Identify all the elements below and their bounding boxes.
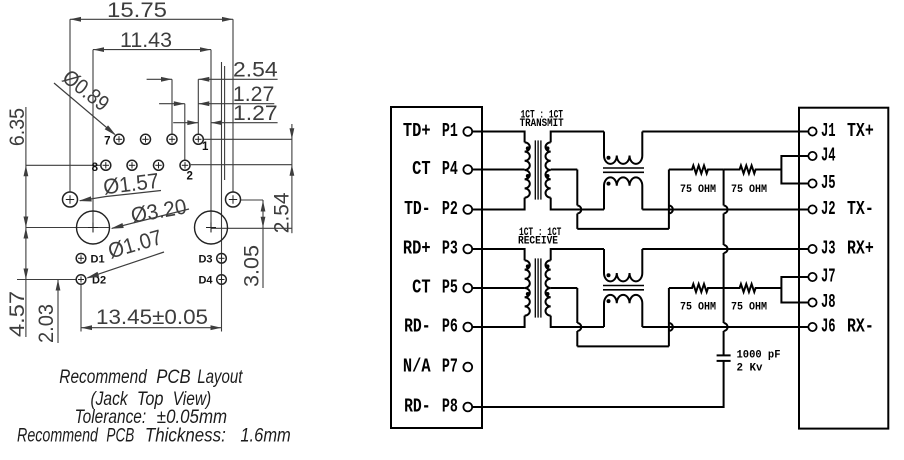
vertical CT to R3 (hop over J6 wire)	[669, 288, 673, 346]
svg-text:RD-: RD-	[404, 316, 431, 338]
svg-text:2.54: 2.54	[270, 192, 294, 233]
svg-text:RX-: RX-	[847, 316, 874, 338]
svg-text:TD-: TD-	[404, 198, 431, 220]
ext pad2 row right	[191, 164, 292, 166]
pin J8 circle	[808, 298, 816, 306]
svg-text:Recommend: Recommend	[17, 426, 99, 447]
ext bighole row left	[26, 227, 110, 229]
pin P3 circle	[463, 245, 472, 254]
svg-text:RD-: RD-	[404, 396, 431, 418]
svg-text:TX-: TX-	[847, 198, 874, 220]
svg-text:D4: D4	[198, 275, 213, 287]
svg-text:1.6mm: 1.6mm	[240, 426, 290, 447]
svg-text:J4: J4	[821, 145, 836, 167]
svg-text:J1: J1	[821, 120, 836, 142]
svg-text:75 OHM: 75 OHM	[731, 184, 767, 196]
svg-text:RD+: RD+	[403, 238, 431, 260]
pad 7	[114, 134, 124, 144]
wire T1 secondary top to choke	[551, 132, 604, 143]
svg-text:2.54: 2.54	[233, 58, 278, 82]
svg-text:6.35: 6.35	[5, 108, 29, 146]
ext bighole row right	[211, 227, 292, 229]
svg-text:D1: D1	[91, 253, 105, 265]
pin P4 circle	[463, 165, 472, 174]
ext D col right long	[221, 62, 223, 332]
pad D1	[76, 253, 86, 263]
hole dia3.20 right	[195, 211, 228, 244]
bracket J7-J8	[781, 277, 808, 303]
svg-text:P3: P3	[442, 238, 458, 260]
extension line left dia1.57 hole	[69, 19, 71, 192]
wire P1 to T1 primary top	[472, 132, 524, 143]
svg-text:P4: P4	[442, 158, 458, 180]
pin J6 circle	[808, 323, 816, 331]
svg-text:PCB: PCB	[156, 367, 191, 388]
svg-text:RX+: RX+	[847, 238, 874, 260]
svg-text:P1: P1	[442, 120, 458, 142]
svg-text:CT: CT	[412, 158, 431, 180]
svg-text:P2: P2	[442, 198, 458, 220]
wire T1 secondary CT run	[551, 169, 578, 171]
svg-text:3.05: 3.05	[240, 245, 264, 287]
svg-text:J8: J8	[821, 291, 836, 313]
svg-text:75 OHM: 75 OHM	[680, 302, 716, 314]
svg-text:P5: P5	[442, 277, 458, 299]
wire P5 to T2 primary CT	[472, 287, 524, 289]
svg-text:TX+: TX+	[847, 120, 874, 142]
svg-text:TD+: TD+	[403, 120, 431, 142]
dim 15.75 line	[70, 18, 233, 20]
wire choke L1 bottom to J2 TX-	[642, 209, 808, 211]
svg-text:8: 8	[92, 162, 99, 174]
ext hole row right	[241, 199, 263, 201]
svg-text:Layout: Layout	[197, 367, 243, 388]
svg-text:P8: P8	[442, 396, 458, 418]
pin J7 circle	[808, 273, 816, 281]
wire P4 to T1 primary CT	[472, 169, 524, 171]
leader dia1.57	[106, 191, 161, 197]
left connector box	[391, 107, 482, 428]
resistor R1 75ohm (tx)	[669, 166, 724, 174]
svg-text:2 Kv: 2 Kv	[737, 363, 764, 375]
svg-text:J2: J2	[821, 198, 836, 220]
svg-text:D3: D3	[198, 253, 212, 265]
resistor R3 75ohm (rx)	[669, 284, 724, 292]
svg-text:75 OHM: 75 OHM	[680, 184, 716, 196]
dim 13.45 line	[81, 327, 222, 329]
dim 1.27b arrows	[173, 122, 198, 124]
dim 2.03 line	[57, 280, 59, 344]
resistor R4 75ohm (rx)	[724, 284, 782, 292]
svg-text:15.75: 15.75	[107, 0, 167, 22]
leader dia1.07	[88, 252, 165, 278]
wire capacitor to P8 row	[472, 361, 723, 407]
leader dia3.20	[112, 209, 189, 228]
node vertical R-junction to capacitor	[724, 170, 728, 356]
extension line right dia3.20 hole	[210, 50, 212, 232]
pad (row1-3)	[167, 134, 177, 144]
dim 2.54 arrows	[147, 78, 172, 80]
ext pad8 row left	[26, 164, 100, 166]
pin P1 circle	[463, 127, 472, 136]
svg-text:1.27: 1.27	[233, 101, 278, 125]
dim 1.27a arrows	[159, 103, 185, 105]
svg-text:Thickness:: Thickness:	[145, 426, 226, 447]
ext pad col2 row2	[184, 104, 186, 160]
pad (row1-2)	[141, 134, 151, 144]
pin J3 circle	[808, 245, 816, 253]
wire T2 secondary CT run	[551, 287, 578, 289]
svg-text:N/A: N/A	[403, 356, 431, 378]
capacitor C1 1000pF	[717, 354, 731, 356]
pad 2	[180, 160, 190, 170]
wire P6 to T2 primary bottom	[472, 316, 524, 327]
pad 8	[101, 160, 111, 170]
svg-text:P7: P7	[442, 356, 458, 378]
dim 11.43 line	[93, 49, 211, 51]
bracket J4-J5	[781, 156, 808, 184]
ext pad col3	[171, 79, 173, 133]
extension line left dia3.20 hole	[92, 50, 94, 232]
wire P2 to T1 primary bottom	[472, 198, 524, 210]
svg-text:TRANSMIT: TRANSMIT	[520, 118, 564, 130]
ext line x224.6	[224, 66, 226, 180]
pin P8 circle	[463, 403, 472, 412]
wire T2 secondary bottom	[551, 316, 604, 327]
svg-text:J6: J6	[821, 316, 836, 338]
svg-text:RECEIVE: RECEIVE	[518, 236, 558, 248]
right connector box	[799, 108, 888, 429]
svg-text:J5: J5	[821, 172, 836, 194]
svg-text:7: 7	[104, 136, 110, 148]
wire choke L1 top to J1 TX+	[642, 131, 808, 133]
wire choke L2 bottom to J6 RX-	[642, 326, 808, 328]
hole dia3.20 left	[77, 211, 110, 244]
hole dia1.57 left	[63, 192, 78, 207]
svg-text:CT: CT	[412, 277, 431, 299]
ext D2 row left	[17, 279, 76, 281]
vertical CT to R1 (hop over J2 wire)	[669, 170, 673, 229]
common-mode choke L1 (transmit)	[604, 132, 642, 164]
wire P3 to T2 primary top	[472, 249, 524, 260]
pad D3	[217, 253, 227, 263]
svg-text:4.57: 4.57	[5, 291, 29, 337]
ext pad col4	[197, 79, 199, 133]
common-mode choke L2 (receive)	[604, 249, 642, 281]
svg-text:75 OHM: 75 OHM	[731, 302, 767, 314]
resistor R2 75ohm (tx)	[724, 166, 782, 174]
dim 6.35 line	[25, 107, 27, 337]
pad D4	[217, 275, 227, 285]
pad (row2-3)	[154, 160, 164, 170]
pin J2 circle	[808, 205, 816, 213]
svg-text:13.45±0.05: 13.45±0.05	[96, 305, 208, 329]
dim hole-big arrows	[262, 200, 264, 288]
ext D2 down	[80, 285, 82, 332]
svg-text:1: 1	[202, 141, 209, 153]
transformer T2 (receive)	[525, 260, 530, 315]
pad (row2-2)	[127, 160, 137, 170]
pad 1	[193, 134, 203, 144]
svg-text:2.03: 2.03	[34, 304, 58, 343]
pin J1 circle	[808, 127, 816, 135]
hole dia1.57 right	[226, 192, 241, 207]
pin P2 circle	[463, 205, 472, 214]
svg-text:P6: P6	[442, 316, 458, 338]
svg-text:1000 pF: 1000 pF	[737, 349, 781, 361]
pin P7 circle	[463, 363, 472, 372]
svg-text:11.43: 11.43	[120, 28, 172, 52]
pin P6 circle	[463, 323, 472, 332]
svg-text:Recommend: Recommend	[59, 367, 148, 388]
dim 2.54 right line	[291, 124, 293, 233]
svg-text:J3: J3	[821, 238, 836, 260]
svg-text:J7: J7	[821, 266, 836, 288]
svg-text:2: 2	[187, 171, 193, 183]
wire T1 secondary bottom	[551, 198, 604, 210]
wire T2 secondary top to choke	[551, 249, 604, 260]
pin P5 circle	[463, 284, 472, 293]
extension line right dia1.57 hole	[232, 19, 234, 192]
wire choke L2 top to J3 RX+	[642, 248, 808, 250]
pad D2	[76, 275, 86, 285]
pin J4 circle	[808, 152, 816, 160]
svg-text:PCB: PCB	[106, 426, 134, 447]
ext pad1 row right	[203, 138, 292, 140]
transformer T1 (transmit)	[525, 142, 530, 197]
pin J5 circle	[808, 179, 816, 187]
leader dia0.89	[54, 83, 115, 134]
